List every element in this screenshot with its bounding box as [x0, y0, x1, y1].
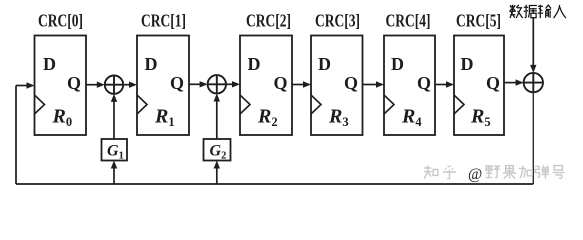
wire Q1 to X2	[189, 83, 201, 85]
wire Q2 to D of R3	[292, 84, 305, 86]
wire Q0 to X1	[86, 84, 98, 86]
svg-text:D: D	[145, 54, 158, 74]
wire X2 to D of R2	[226, 83, 234, 85]
gate G2	[204, 139, 231, 161]
flip-flop R0 (CRC[0])	[35, 36, 87, 136]
xor gate X2	[208, 75, 226, 93]
flip-flop R4 (CRC[4])	[384, 36, 435, 136]
flip-flop R5 (CRC[5])	[454, 36, 504, 136]
svg-text:Q: Q	[417, 73, 431, 93]
arrow into X1 bottom	[111, 94, 117, 102]
wire X1 to D of R1	[123, 84, 131, 86]
wire rail to G1	[113, 167, 115, 184]
svg-text:Q: Q	[486, 73, 500, 93]
svg-text:CRC[5]: CRC[5]	[456, 11, 501, 31]
arrow into X1 left	[97, 82, 105, 88]
svg-text:Q: Q	[170, 73, 184, 93]
svg-text:CRC[0]: CRC[0]	[38, 11, 83, 31]
flip-flop R1 (CRC[1])	[137, 36, 189, 136]
wire data input drop	[532, 17, 534, 67]
svg-text:CRC[4]: CRC[4]	[386, 11, 431, 31]
wire into D of R0	[16, 85, 28, 87]
svg-text:CRC[3]: CRC[3]	[315, 11, 360, 31]
label data input (CJK)	[509, 5, 566, 18]
gate G1	[102, 139, 128, 161]
arrow into X3 left	[516, 79, 524, 85]
wire Q5 to X3	[504, 82, 517, 84]
flip-flop R3 (CRC[3])	[311, 36, 363, 136]
arrow into X2 left	[200, 81, 208, 87]
arrow into D of R4	[376, 81, 384, 87]
arrow into G2 bottom	[214, 161, 220, 169]
arrow into D of R3	[303, 81, 311, 87]
wire bottom feedback rail	[16, 183, 533, 185]
svg-text:CRC[1]: CRC[1]	[141, 11, 186, 31]
arrow into D of R0	[27, 82, 35, 88]
wire G1 to X1	[113, 100, 115, 139]
svg-text:Q: Q	[273, 73, 287, 93]
xor gate X1	[105, 76, 123, 94]
svg-text:D: D	[391, 54, 404, 74]
arrow into D of R2	[232, 81, 240, 87]
svg-text:Q: Q	[67, 73, 81, 93]
flip-flop R2 (CRC[2])	[240, 36, 292, 136]
arrow into D of R1	[129, 82, 137, 88]
arrow into D of R5	[446, 81, 454, 87]
xor gate X3	[524, 73, 543, 92]
wire feedback left riser	[15, 86, 17, 185]
svg-text:D: D	[461, 54, 474, 74]
svg-text:D: D	[43, 54, 56, 74]
wire Q3 to D of R4	[363, 84, 379, 86]
wire Q4 to D of R5	[435, 84, 448, 86]
wire X3 output down	[532, 92, 534, 184]
svg-text:Q: Q	[344, 73, 358, 93]
arrow into X3 top	[530, 65, 536, 73]
arrow into X2 bottom	[214, 94, 220, 102]
svg-text:D: D	[318, 54, 331, 74]
wire G2 to X2	[216, 100, 218, 139]
wire rail to G2	[216, 167, 218, 184]
svg-text:D: D	[248, 54, 261, 74]
svg-text:@: @	[468, 166, 482, 183]
arrow into G1 bottom	[111, 161, 117, 169]
svg-text:CRC[2]: CRC[2]	[246, 11, 291, 31]
watermark zhihu	[424, 165, 565, 183]
